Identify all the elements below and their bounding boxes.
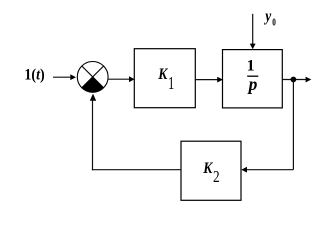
block K2 — [181, 141, 241, 200]
wire y0 input arrow — [252, 14, 254, 45]
wire input arrow — [53, 76, 71, 78]
wire feedback left horizontal — [92, 169, 181, 171]
wire feedback into K2 — [246, 169, 293, 171]
svg-text:y: y — [263, 8, 271, 25]
svg-text:2: 2 — [213, 167, 220, 186]
block K1 — [134, 49, 195, 108]
summing junction — [77, 62, 108, 93]
wire output — [282, 79, 306, 81]
wire feedback right vertical — [292, 80, 294, 170]
svg-text:K: K — [202, 160, 213, 177]
svg-text:K: K — [157, 66, 168, 83]
wire feedback left vertical — [92, 100, 94, 170]
svg-text:p: p — [247, 74, 258, 94]
svg-text:1(t): 1(t) — [24, 66, 44, 84]
svg-text:1: 1 — [168, 75, 174, 94]
wire K1 to 1/p — [195, 79, 218, 81]
wire junction to K1 — [108, 78, 129, 80]
svg-text:1: 1 — [247, 58, 255, 75]
fraction bar — [247, 75, 258, 77]
node junction dot — [291, 77, 297, 83]
svg-text:0: 0 — [272, 17, 276, 28]
arrow into summing junction bottom — [90, 94, 96, 101]
block 1/p — [223, 50, 283, 108]
